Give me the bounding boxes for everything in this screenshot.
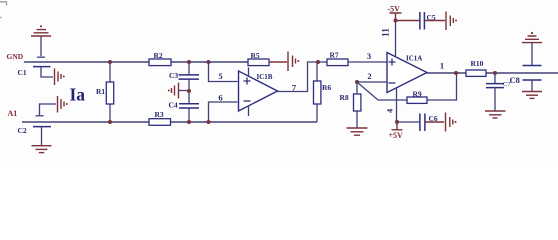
ground (sideways, mid) <box>172 83 179 99</box>
svg-text:C8: C8 <box>510 75 520 85</box>
svg-text:R2: R2 <box>154 51 163 60</box>
resistor R8 <box>354 82 361 128</box>
capacitor C3 <box>179 62 200 103</box>
svg-text:3: 3 <box>367 51 371 61</box>
op-amp IC1B <box>239 68 278 117</box>
screen corner artifact <box>0 2 7 18</box>
capacitor C4 <box>179 104 199 122</box>
power +5V <box>392 120 403 130</box>
svg-text:2: 2 <box>367 71 371 81</box>
svg-text:R10: R10 <box>471 59 484 68</box>
svg-text:C3: C3 <box>169 71 178 80</box>
resistor R3 <box>149 119 171 126</box>
resistor R9 <box>407 73 457 103</box>
node C3 top <box>187 60 191 64</box>
capacitor C8 <box>486 73 504 111</box>
ground (earth, right) <box>522 92 542 99</box>
svg-text:5: 5 <box>218 71 222 81</box>
capacitor C5 <box>396 12 446 30</box>
wire bottom rail <box>22 121 317 123</box>
wire pin7 output <box>278 62 328 92</box>
node R1 bottom <box>108 120 112 124</box>
node R9 output <box>454 71 458 75</box>
resistor R2 <box>149 59 171 66</box>
ground (sideways, R5) <box>288 52 296 72</box>
ground (sideways, C5) <box>446 12 453 31</box>
power -5V <box>390 13 402 23</box>
svg-text:C6: C6 <box>429 114 438 123</box>
svg-text:6: 6 <box>218 93 222 103</box>
ground (earth, C8) <box>485 111 506 118</box>
svg-text:C1: C1 <box>18 68 27 77</box>
capacitor above A1 rail <box>36 104 57 116</box>
ground (sideways, A1 side) <box>58 96 65 113</box>
wire pin4 <box>396 89 398 123</box>
resistor R6 <box>314 62 321 122</box>
svg-text:R5: R5 <box>251 51 260 60</box>
svg-text:R8: R8 <box>340 93 349 102</box>
capacitor C6 <box>397 114 444 132</box>
node C8 <box>493 71 497 75</box>
svg-text:-5V: -5V <box>388 5 401 14</box>
wire pin2 <box>357 81 387 83</box>
svg-text:IC1B: IC1B <box>257 73 273 81</box>
svg-text:C5: C5 <box>427 13 436 22</box>
capacitor C1 <box>33 67 53 77</box>
ground (chassis, top-left) <box>31 25 51 57</box>
wire top rail <box>24 61 248 63</box>
node pin2 <box>355 80 359 84</box>
resistor R1 <box>106 62 113 122</box>
node C3-C4 <box>187 89 191 93</box>
node R1 top <box>108 60 112 64</box>
svg-text:R7: R7 <box>330 51 339 60</box>
svg-text:IC1A: IC1A <box>406 55 422 63</box>
svg-text:4: 4 <box>385 108 395 113</box>
resistor R5 <box>248 59 287 66</box>
svg-text:GND: GND <box>7 52 24 61</box>
ground (sideways, C1) <box>55 69 62 86</box>
ground (earth, R8) <box>347 128 368 135</box>
svg-text:R6: R6 <box>322 83 331 92</box>
capacitor C7 bottom plate <box>523 80 542 91</box>
node pin5 branch <box>207 60 211 64</box>
resistor R7 <box>327 59 348 66</box>
wire pin11 <box>395 21 397 58</box>
svg-text:+5V: +5V <box>389 131 404 140</box>
capacitor C7 top plate <box>523 65 542 67</box>
svg-text:Ia: Ia <box>70 85 86 105</box>
wire pin3 <box>348 61 387 63</box>
wire pin5 <box>209 62 238 82</box>
node R6-R7 <box>316 60 320 64</box>
resistor R10 <box>466 70 486 76</box>
svg-text:1: 1 <box>440 60 444 70</box>
op-amp IC1A <box>387 53 427 93</box>
svg-text:R3: R3 <box>155 110 164 119</box>
wire diagonal to R9 <box>357 82 407 100</box>
svg-text:11: 11 <box>382 28 392 37</box>
node C4 bottom <box>187 120 191 124</box>
ground (earth, C2) <box>32 146 52 153</box>
node pin6 branch <box>207 120 211 124</box>
svg-text:C4: C4 <box>169 100 178 109</box>
svg-text:A1: A1 <box>8 109 18 118</box>
svg-text:R1: R1 <box>96 87 105 96</box>
svg-text:R9: R9 <box>413 89 422 98</box>
capacitor C2 <box>33 127 51 145</box>
ground (sideways, C6) <box>446 113 453 132</box>
wire pin6 <box>209 102 238 122</box>
svg-text:C2: C2 <box>18 126 27 135</box>
wire output <box>427 72 558 74</box>
ground (chassis, top-right) <box>522 32 542 65</box>
